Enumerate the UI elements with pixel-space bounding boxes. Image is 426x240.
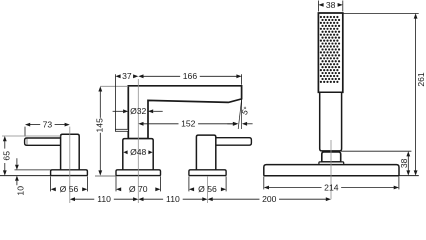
- dimension Ø56 left: [51, 184, 88, 194]
- svg-text:38: 38: [326, 0, 336, 10]
- dimension 38 top extension lines: [318, 1, 342, 12]
- handle 1 centerline: [69, 127, 71, 203]
- spout escutcheon plate Ø70: [116, 170, 161, 176]
- dimension 65 extension line: [2, 135, 61, 137]
- dimension 10 extension line: [15, 169, 51, 171]
- svg-text:145: 145: [94, 118, 104, 133]
- dimension 73: [25, 120, 70, 130]
- svg-text:38: 38: [399, 158, 409, 168]
- hand shower head: [318, 13, 342, 92]
- dimension 214: [264, 182, 399, 192]
- spout tip 5 degree line: [238, 100, 241, 130]
- handle 1 body: [61, 134, 80, 170]
- dimension 38 right: [399, 151, 410, 175]
- handle 1 escutcheon plate Ø56: [51, 170, 88, 176]
- dimension Ø56 left extension lines: [51, 176, 88, 191]
- dimension Ø70: [116, 184, 161, 194]
- hand shower handle: [320, 92, 342, 151]
- dimension 261: [414, 13, 426, 175]
- dimension 5 degree label: [240, 105, 252, 116]
- svg-text:Ø 56: Ø 56: [60, 184, 79, 194]
- svg-text:261: 261: [416, 72, 426, 87]
- dimension 110 first: [70, 194, 139, 204]
- svg-text:Ø 56: Ø 56: [198, 184, 217, 194]
- svg-text:152: 152: [181, 119, 196, 129]
- handle 1 lever: [25, 138, 62, 145]
- svg-text:Ø32: Ø32: [130, 106, 146, 116]
- dimension 5 degree arrows: [227, 122, 252, 126]
- dimension Ø56 right: [189, 184, 226, 194]
- spout hose connection tab: [115, 129, 128, 131]
- hand shower base plate 214: [264, 165, 399, 176]
- dimension 10 label: [15, 186, 25, 196]
- svg-text:Ø48: Ø48: [130, 147, 146, 157]
- dimension 200: [208, 194, 332, 204]
- svg-text:166: 166: [183, 71, 198, 81]
- spout base block Ø48: [123, 139, 153, 171]
- svg-text:110: 110: [97, 194, 111, 204]
- handle 2 centerline: [207, 176, 209, 203]
- dimension 166 extension line: [241, 74, 243, 85]
- svg-text:10: 10: [15, 186, 25, 196]
- dimension 214 extension lines: [264, 177, 399, 190]
- deck surface segment between handle 1 and spout: [95, 175, 116, 177]
- dimension Ø32 label: [130, 106, 146, 116]
- dimension 261 extension line: [344, 12, 419, 14]
- handle 1 lever end cap line: [26, 139, 28, 145]
- svg-text:110: 110: [166, 194, 180, 204]
- dimension 145: [94, 86, 104, 175]
- dimension Ø70 extension lines: [116, 176, 161, 191]
- dimension 65: [2, 136, 12, 176]
- dimension 166: [138, 71, 241, 81]
- dimension Ø56 right extension lines: [189, 176, 226, 191]
- svg-text:214: 214: [324, 182, 339, 192]
- hand shower holder flange: [319, 162, 344, 165]
- handle 2 body: [196, 135, 215, 170]
- deck surface segment right of hand shower plate: [399, 175, 419, 177]
- hand shower centerline: [330, 140, 332, 199]
- hand shower holder collar: [322, 152, 341, 162]
- handle 2 lever: [216, 138, 252, 146]
- deck surface line left of handle 1: [0, 175, 51, 177]
- dimension Ø48: [123, 147, 152, 157]
- svg-text:Ø 70: Ø 70: [129, 184, 148, 194]
- dimension 152: [138, 119, 238, 129]
- spout centerline: [137, 79, 139, 203]
- dimension 145 extension line: [100, 85, 128, 87]
- dimension 10 arrows: [15, 158, 19, 185]
- dimension 110 second: [138, 194, 207, 204]
- dimension 38 top: [318, 0, 342, 10]
- dimension 38 right extension line: [341, 150, 411, 152]
- dimension 73 extension line: [24, 127, 26, 137]
- svg-text:73: 73: [43, 120, 53, 130]
- handle 2 escutcheon plate Ø56: [189, 170, 226, 176]
- spout tip vertical reference line: [241, 100, 243, 130]
- svg-text:65: 65: [2, 151, 12, 161]
- hand shower spray face dot pattern: [320, 16, 340, 83]
- svg-text:200: 200: [262, 194, 277, 204]
- dimension Ø32 arrows: [113, 109, 163, 113]
- spout arm and riser Ø32: [128, 86, 241, 139]
- svg-text:37: 37: [122, 71, 132, 81]
- dimension 37: [115, 71, 138, 81]
- dimension 37 extension line: [114, 74, 116, 129]
